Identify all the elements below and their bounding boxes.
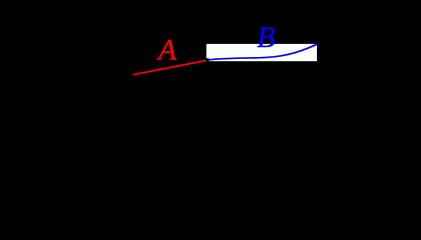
curve A (red incline): [133, 61, 205, 75]
junction dot: [206, 58, 209, 61]
white strip (table): [206, 44, 317, 61]
svg-text:B: B: [257, 21, 275, 54]
svg-text:A: A: [156, 33, 177, 66]
curve B (blue curve on strip): [208, 44, 317, 60]
